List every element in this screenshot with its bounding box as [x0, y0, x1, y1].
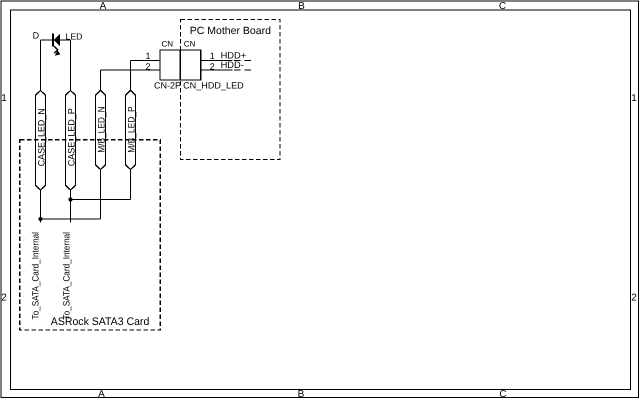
svg-text:1: 1: [1, 93, 7, 104]
wire CN_HDD_LED pin2 right: [201, 69, 233, 71]
wire LED top horizontal: [41, 39, 71, 41]
wire CN-2P pin2 vertical down to M/B LED_N: [100, 70, 102, 90]
svg-text:PC Mother Board: PC Mother Board: [190, 25, 271, 37]
svg-text:2: 2: [1, 293, 7, 304]
svg-text:HDD-: HDD-: [221, 60, 244, 70]
connector CASE_LED_N hexagon: [36, 91, 46, 191]
wire CN_HDD_LED pin1 right: [201, 60, 233, 62]
svg-text:2: 2: [631, 293, 637, 304]
connector rect CN-2P: [160, 50, 180, 80]
connector M/B LED_P hexagon: [126, 90, 136, 169]
wire horizontal CASE_LED_P to M/B LED_P: [71, 199, 131, 201]
wire horizontal CASE_LED_N to M/B LED_N: [41, 218, 101, 220]
svg-text:B: B: [298, 389, 305, 400]
svg-text:A: A: [100, 1, 107, 12]
PC Mother Board dashed box: [181, 20, 281, 160]
wire CN-2P pin1 horizontal: [131, 60, 161, 62]
wire M/B LED_N bottom vertical: [100, 170, 102, 220]
ASRock SATA3 Card dashed box: [20, 140, 161, 330]
wire CASE_LED_P bottom vertical: [70, 190, 72, 223]
svg-text:C: C: [499, 389, 506, 400]
svg-text:LED: LED: [66, 31, 83, 41]
wire right vertical to CASE_LED_P: [70, 40, 72, 91]
wire HDD+ dashed continuation: [234, 60, 251, 62]
wire CN-2P pin1 vertical down to M/B LED_P: [130, 61, 132, 91]
svg-text:CN-2P: CN-2P: [154, 81, 181, 91]
svg-text:HDD+: HDD+: [221, 50, 247, 60]
diode D LED symbol: [52, 34, 61, 56]
wire CASE_LED_N bottom vertical: [40, 190, 42, 223]
wire CN-2P pin2 horizontal: [101, 69, 161, 71]
wire M/B LED_P bottom vertical: [130, 170, 132, 200]
svg-text:M/B_LED_N: M/B_LED_N: [95, 106, 106, 152]
svg-text:CASE_LED_N: CASE_LED_N: [36, 108, 47, 166]
svg-text:CASE_LED_P: CASE_LED_P: [66, 108, 77, 166]
svg-text:1: 1: [210, 51, 215, 61]
wire HDD- dashed continuation: [234, 69, 251, 71]
connector rect CN_HDD_LED: [180, 50, 200, 80]
svg-text:B: B: [298, 1, 305, 12]
svg-text:1: 1: [145, 51, 150, 61]
svg-text:A: A: [98, 389, 105, 400]
svg-text:C: C: [499, 1, 506, 12]
junction dot CASE_LED_N node: [38, 217, 42, 221]
svg-text:CN: CN: [162, 39, 174, 48]
svg-text:1: 1: [631, 93, 637, 104]
svg-text:M/B_LED_P: M/B_LED_P: [125, 106, 136, 152]
svg-text:CN: CN: [184, 39, 196, 48]
connector CASE_LED_P hexagon: [66, 91, 76, 191]
svg-text:D: D: [33, 30, 40, 40]
svg-text:CN_HDD_LED: CN_HDD_LED: [183, 81, 244, 91]
svg-text:To_SATA_Card_Internal: To_SATA_Card_Internal: [61, 232, 71, 320]
svg-text:To_SATA_Card_Internal: To_SATA_Card_Internal: [31, 232, 41, 320]
wire left vertical to CASE_LED_N: [40, 40, 42, 91]
connector M/B LED_N hexagon: [96, 90, 106, 169]
junction dot CASE_LED_P node: [68, 197, 72, 201]
